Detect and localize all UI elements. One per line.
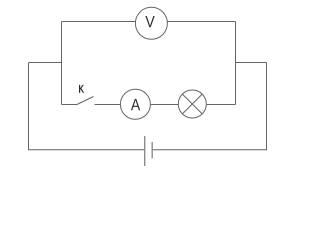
battery short plate — [151, 142, 153, 159]
wire left outer vertical — [28, 63, 30, 151]
wire lamp to right vertical — [207, 104, 236, 106]
ammeter A1 circle — [120, 89, 150, 119]
wire bottom left to battery — [29, 149, 145, 151]
lamp L1 cross stroke 1 — [182, 94, 202, 114]
switch K blade — [77, 97, 94, 105]
wire right connector — [236, 62, 267, 64]
wire top branch — [62, 21, 236, 23]
label K — [79, 85, 84, 93]
wire left connector — [29, 62, 62, 64]
wire right inner vertical — [235, 22, 237, 105]
wire left inner vertical — [61, 22, 63, 105]
lamp L1 cross stroke 2 — [182, 94, 202, 114]
battery long plate — [144, 136, 146, 166]
wire right outer vertical — [266, 63, 268, 151]
voltmeter V1 circle — [135, 7, 167, 39]
switch K stub — [62, 104, 78, 106]
wire battery to bottom right — [153, 149, 267, 151]
wire switch to ammeter — [95, 104, 121, 106]
voltmeter V1 label — [145, 16, 154, 27]
ammeter A1 label — [131, 99, 140, 110]
lamp L1 circle — [178, 90, 206, 118]
wire ammeter to lamp — [151, 104, 179, 106]
